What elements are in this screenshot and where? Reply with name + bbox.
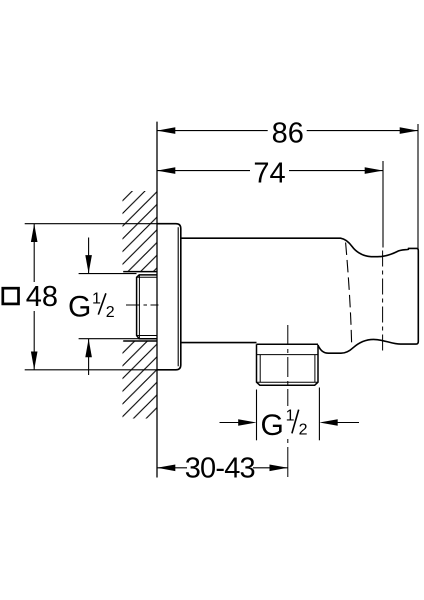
escutcheon flange xyxy=(157,224,181,370)
dim 30-43 arrows xyxy=(157,465,175,472)
wall hole bottom edge xyxy=(123,340,157,342)
dim 48 line xyxy=(33,224,35,370)
dim 48 arrows xyxy=(31,224,38,242)
dim 86 arrows xyxy=(157,127,175,134)
wall hole top edge xyxy=(123,271,157,273)
dim 86 xyxy=(157,130,418,132)
dim 30-43 xyxy=(157,467,288,469)
svg-text:30-43: 30-43 xyxy=(185,452,255,484)
thread dim extension line top xyxy=(79,273,137,275)
square symbol xyxy=(3,288,19,304)
dim 86 right extension line xyxy=(417,124,419,250)
flange edge inner line xyxy=(177,227,179,366)
svg-text:G: G xyxy=(261,409,284,442)
dim 74 extension line xyxy=(382,161,384,248)
holder body outline xyxy=(181,238,418,353)
dim 74 xyxy=(157,170,383,172)
inlet axis centerline xyxy=(126,304,159,306)
svg-text:G: G xyxy=(68,291,91,324)
wall face line xyxy=(156,122,158,478)
cradle centerline (dash-dot) xyxy=(382,251,384,354)
svg-text:86: 86 xyxy=(272,118,304,150)
wall hatching lower xyxy=(123,341,157,419)
thread dim line bottom arrow xyxy=(88,339,90,375)
thread dim line top arrow xyxy=(88,238,90,274)
holder body bottom line xyxy=(181,342,257,344)
svg-text:1: 1 xyxy=(92,291,101,308)
bottom G 1/2 dim extension lines xyxy=(256,390,258,441)
dim 48 extension line top xyxy=(25,223,157,225)
wall hatching upper xyxy=(123,191,157,272)
dim 74 arrows xyxy=(157,167,175,174)
svg-text:48: 48 xyxy=(26,281,58,313)
dim 48 extension line bottom xyxy=(25,369,157,371)
hidden edge of cradle (dashed) xyxy=(346,243,352,347)
outlet centerline (dash-dot) xyxy=(287,325,289,406)
svg-text:74: 74 xyxy=(253,158,285,190)
svg-text:2: 2 xyxy=(299,421,308,438)
bottom outlet boss xyxy=(257,344,319,385)
thread dim extension line bottom xyxy=(79,338,139,340)
svg-text:1: 1 xyxy=(286,407,295,424)
svg-text:2: 2 xyxy=(106,304,115,321)
inlet thread nipple (rear) xyxy=(137,275,157,339)
bottom G 1/2 arrows xyxy=(220,422,241,424)
